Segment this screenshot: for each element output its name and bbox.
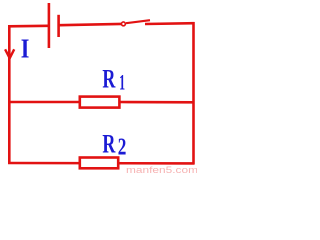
wire left vertical bbox=[8, 25, 11, 164]
wire battery to switch bbox=[60, 24, 122, 25]
switch S contact circle bbox=[121, 22, 125, 26]
current arrow I on left wire bbox=[5, 49, 14, 58]
wire top-left (battery positive to left corner) bbox=[8, 24, 49, 27]
resistor R2 body bbox=[80, 158, 118, 169]
wire switch to right corner bbox=[145, 22, 195, 25]
battery BT short plate bbox=[57, 15, 60, 37]
svg-text:1: 1 bbox=[119, 70, 125, 95]
battery BT long plate bbox=[48, 3, 51, 48]
svg-text:2: 2 bbox=[118, 135, 127, 161]
wire bottom bbox=[8, 162, 195, 165]
svg-text:I: I bbox=[21, 33, 30, 63]
svg-text:R: R bbox=[102, 64, 116, 94]
label R2 bbox=[102, 128, 126, 160]
wire right vertical bbox=[192, 22, 195, 164]
wire middle right segment bbox=[121, 101, 194, 104]
label R1 bbox=[102, 64, 125, 95]
wire middle left segment bbox=[8, 101, 79, 104]
resistor R1 body bbox=[80, 97, 120, 108]
svg-text:manfen5.com: manfen5.com bbox=[126, 165, 197, 175]
switch S blade bbox=[126, 20, 150, 23]
svg-text:R: R bbox=[102, 128, 116, 158]
